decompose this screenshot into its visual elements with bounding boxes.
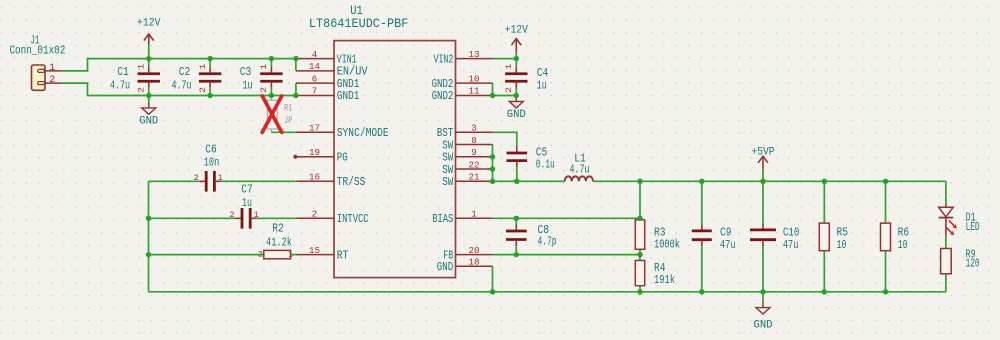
svg-text:1: 1 [288,249,293,259]
svg-text:2: 2 [230,210,235,220]
svg-text:2: 2 [312,210,318,220]
svg-text:3: 3 [471,124,477,134]
svg-text:20: 20 [469,246,480,256]
svg-text:11: 11 [469,87,480,97]
svg-text:47u: 47u [720,238,736,252]
svg-text:R2: R2 [272,221,284,235]
svg-text:13: 13 [469,50,480,60]
svg-text:18: 18 [469,258,480,268]
svg-text:4: 4 [312,50,318,60]
svg-text:GND: GND [139,115,158,127]
svg-text:1: 1 [49,62,55,74]
svg-text:4.7u: 4.7u [110,79,130,92]
svg-text:C3: C3 [240,66,252,79]
svg-text:C7: C7 [241,182,253,196]
svg-text:1000k: 1000k [654,238,680,252]
svg-text:PG: PG [337,151,348,165]
svg-text:VIN2: VIN2 [434,52,454,66]
svg-text:22: 22 [469,160,480,170]
svg-text:JP: JP [284,115,293,127]
svg-text:C2: C2 [179,66,191,79]
svg-text:+5VP: +5VP [751,146,775,158]
svg-text:LT8641EUDC-PBF: LT8641EUDC-PBF [309,16,408,31]
svg-text:1u: 1u [242,196,252,210]
svg-text:Conn_01x02: Conn_01x02 [9,44,65,58]
svg-text:7: 7 [312,87,318,97]
svg-text:C6: C6 [205,142,217,156]
svg-text:6: 6 [312,74,318,84]
svg-text:4.7p: 4.7p [538,235,557,249]
svg-text:2: 2 [260,87,269,93]
svg-text:2: 2 [49,74,55,86]
svg-text:GND2: GND2 [432,89,454,103]
svg-text:1: 1 [138,63,147,69]
svg-text:17: 17 [309,124,320,134]
svg-text:10: 10 [837,238,847,252]
svg-text:4.7u: 4.7u [172,79,192,92]
svg-text:9: 9 [471,148,477,158]
svg-text:8: 8 [471,136,477,146]
svg-text:BIAS: BIAS [432,212,453,226]
svg-text:TR/SS: TR/SS [337,175,366,189]
svg-text:SYNC/MODE: SYNC/MODE [337,126,389,140]
svg-text:C1: C1 [117,66,129,79]
svg-text:14: 14 [309,62,320,72]
svg-text:1: 1 [218,173,223,183]
svg-text:1: 1 [505,63,514,69]
svg-text:2: 2 [194,173,199,183]
svg-text:1u: 1u [243,79,253,92]
svg-text:GND1: GND1 [337,89,360,103]
svg-text:1u: 1u [537,79,547,93]
svg-text:120: 120 [966,257,980,271]
svg-text:GND: GND [507,109,526,121]
svg-text:4.7u: 4.7u [570,163,590,177]
svg-text:1: 1 [199,63,208,69]
svg-text:2: 2 [138,87,147,93]
svg-text:SW: SW [442,175,454,189]
svg-text:1: 1 [254,210,259,220]
svg-text:LED: LED [966,220,980,234]
svg-text:191k: 191k [654,273,675,287]
svg-text:47u: 47u [783,238,799,252]
svg-text:19: 19 [309,148,320,158]
svg-text:GND: GND [754,320,773,332]
svg-text:21: 21 [469,173,480,183]
svg-text:2: 2 [199,87,208,93]
svg-text:1: 1 [471,210,477,220]
svg-text:RT: RT [337,248,349,262]
svg-text:15: 15 [309,246,320,256]
svg-text:+12V: +12V [137,18,161,30]
svg-text:10n: 10n [204,155,220,169]
svg-text:+12V: +12V [505,24,529,36]
svg-text:R1: R1 [284,103,293,115]
svg-text:16: 16 [309,173,320,183]
svg-text:2: 2 [505,87,514,93]
svg-text:GND: GND [437,260,454,274]
svg-text:1: 1 [260,63,269,69]
svg-text:2: 2 [258,249,263,259]
svg-text:41.2k: 41.2k [266,235,292,249]
svg-text:INTVCC: INTVCC [337,212,369,226]
svg-text:0.1u: 0.1u [536,158,555,172]
svg-text:10: 10 [469,74,480,84]
svg-text:10: 10 [898,238,908,252]
